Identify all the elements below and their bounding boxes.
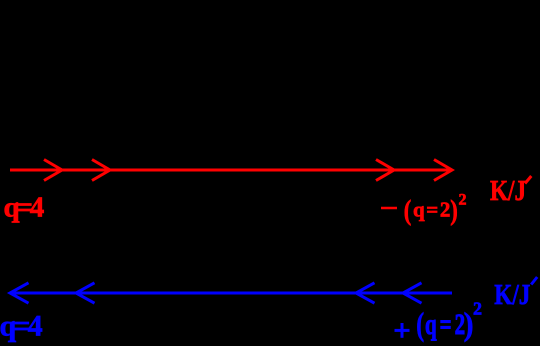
node F: blue arrowhead 2: [76, 283, 95, 303]
svg-text:q=4: q=4: [4, 192, 44, 224]
svg-text:q=4: q=4: [0, 310, 43, 343]
node B: red arrowhead 2: [92, 160, 110, 181]
wire: red RG-flow line q=4: [10, 169, 452, 172]
label prime tick (red): [525, 176, 531, 184]
label minus sign (red): [381, 207, 397, 210]
wire: blue RG-flow line q=4: [10, 292, 452, 295]
label plus sign horizontal bar (blue): [395, 329, 410, 332]
node C: red arrowhead 3: [376, 160, 394, 181]
svg-text:q=2: q=2: [413, 197, 452, 221]
node H: blue arrowhead 4: [403, 283, 422, 303]
node E: blue arrowhead 1 (line end): [10, 283, 29, 303]
node A: red arrowhead 1: [44, 160, 62, 181]
svg-text:): ): [450, 194, 458, 226]
svg-text:(: (: [416, 307, 424, 344]
label plus sign vertical bar (blue): [401, 323, 404, 338]
label prime tick (blue): [531, 277, 537, 285]
svg-text:K/J: K/J: [490, 175, 526, 207]
node D: red arrowhead 4 (line end): [434, 160, 452, 181]
svg-text:2: 2: [473, 299, 482, 319]
svg-text:K/J: K/J: [494, 279, 530, 311]
svg-text:q=2: q=2: [425, 308, 468, 342]
svg-text:2: 2: [459, 192, 467, 209]
svg-text:): ): [464, 306, 474, 343]
svg-text:(: (: [404, 194, 412, 226]
node G: blue arrowhead 3: [356, 283, 375, 303]
